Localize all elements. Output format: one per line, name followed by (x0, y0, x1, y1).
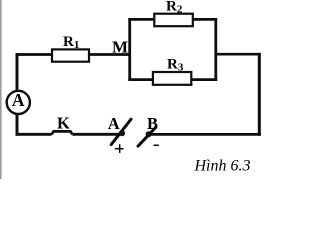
wire: parallel-branch right vertical (214, 18, 217, 81)
wire: parallel-branch left vertical at node M (128, 18, 131, 81)
terminal B (plug contact: dot and slash) (138, 127, 156, 146)
svg-text:M: M (112, 37, 128, 56)
ammeter A (circle meter with letter A) (7, 90, 30, 114)
wire: parallel pair output stub to the right (216, 53, 261, 56)
resistor R3 (153, 72, 191, 85)
wire: right vertical (258, 53, 261, 136)
svg-text:Hình 6.3: Hình 6.3 (194, 158, 251, 175)
wire: bottom branch of parallel pair (128, 78, 217, 81)
wire: left vertical above ammeter (16, 53, 19, 91)
resistor R1 (52, 49, 89, 61)
svg-text:A: A (108, 114, 120, 133)
svg-text:A: A (12, 90, 25, 110)
wire: bottom horizontal from terminal B to right corner (150, 133, 261, 136)
wire: left vertical below ammeter (16, 114, 19, 135)
resistor R2 (154, 14, 193, 27)
wire: bottom-left horizontal, ammeter branch to switch (17, 133, 52, 134)
label - (negative polarity) (154, 144, 159, 146)
terminal A (plug contact: dot and slash) (111, 119, 131, 144)
label + (positive polarity) (115, 144, 124, 153)
wire: top branch of parallel pair (128, 18, 217, 21)
wire: R1 to node M (89, 53, 131, 56)
wire: switch to terminal A (72, 133, 119, 136)
wire: top-left horizontal, ammeter branch corner to R1 (17, 55, 52, 57)
switch K (closed contact bar) (52, 131, 73, 134)
svg-text:B: B (147, 114, 158, 133)
svg-text:K: K (57, 114, 70, 133)
